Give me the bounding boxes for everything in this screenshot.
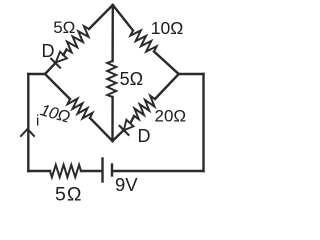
resistor 5ohm top-left arm [67, 26, 90, 52]
diode D (bottom-right arm) bar [120, 126, 129, 135]
resistor 20ohm bottom-right arm [134, 96, 155, 119]
svg-text:5Ω: 5Ω [53, 18, 75, 37]
wire BR arm lower segment (bottom vertex to diode) [113, 130, 124, 141]
wire left rail [27, 74, 29, 171]
svg-text:10Ω: 10Ω [151, 18, 184, 38]
wire TL arm diode to resistor [63, 50, 66, 56]
wire TR arm lower segment (resistor to right vertex) [154, 52, 179, 75]
wire right stub (right rail to right vertex) [179, 73, 204, 75]
wire right rail [202, 74, 204, 171]
current arrow i on left rail [21, 129, 34, 136]
wire left stub (left vertex to left rail) [28, 73, 45, 75]
wire BL arm lower segment (resistor to bottom vertex) [90, 118, 113, 141]
wire TL arm upper segment (resistor to apex) [89, 5, 113, 29]
wire BR arm diode to resistor [130, 116, 134, 123]
svg-text:i: i [36, 113, 39, 130]
resistor 5ohm bottom [50, 165, 81, 177]
diode D (top-left arm) triangle [56, 52, 67, 63]
svg-text:20Ω: 20Ω [155, 107, 187, 126]
svg-text:D: D [138, 126, 151, 146]
wire BL arm upper segment (left vertex to resistor) [45, 74, 70, 99]
diode D (bottom-right arm) triangle [124, 120, 134, 131]
wire TL arm lower segment (left vertex to diode) [45, 62, 56, 74]
battery 9V long plate [101, 159, 103, 182]
diode D (top-left arm) bar [51, 59, 60, 68]
wire TR arm upper segment (apex to resistor) [113, 5, 133, 31]
wire resistor to battery [81, 170, 101, 172]
resistor 10ohm bottom-left arm [68, 99, 93, 119]
svg-text:5Ω: 5Ω [55, 183, 82, 205]
wire middle upper segment (apex to resistor) [111, 5, 114, 61]
resistor 10ohm top-right arm [130, 31, 156, 52]
wire BR arm upper segment (resistor to right vertex) [155, 74, 179, 99]
resistor 5ohm middle [107, 61, 116, 97]
wire bottom left [28, 170, 50, 172]
wire battery to right rail [113, 170, 203, 172]
svg-text:5Ω: 5Ω [120, 69, 143, 89]
svg-text:9V: 9V [115, 174, 138, 195]
battery 9V short plate [111, 165, 113, 176]
svg-text:D: D [42, 41, 55, 61]
wire middle lower segment (resistor to bottom vertex) [111, 97, 113, 141]
